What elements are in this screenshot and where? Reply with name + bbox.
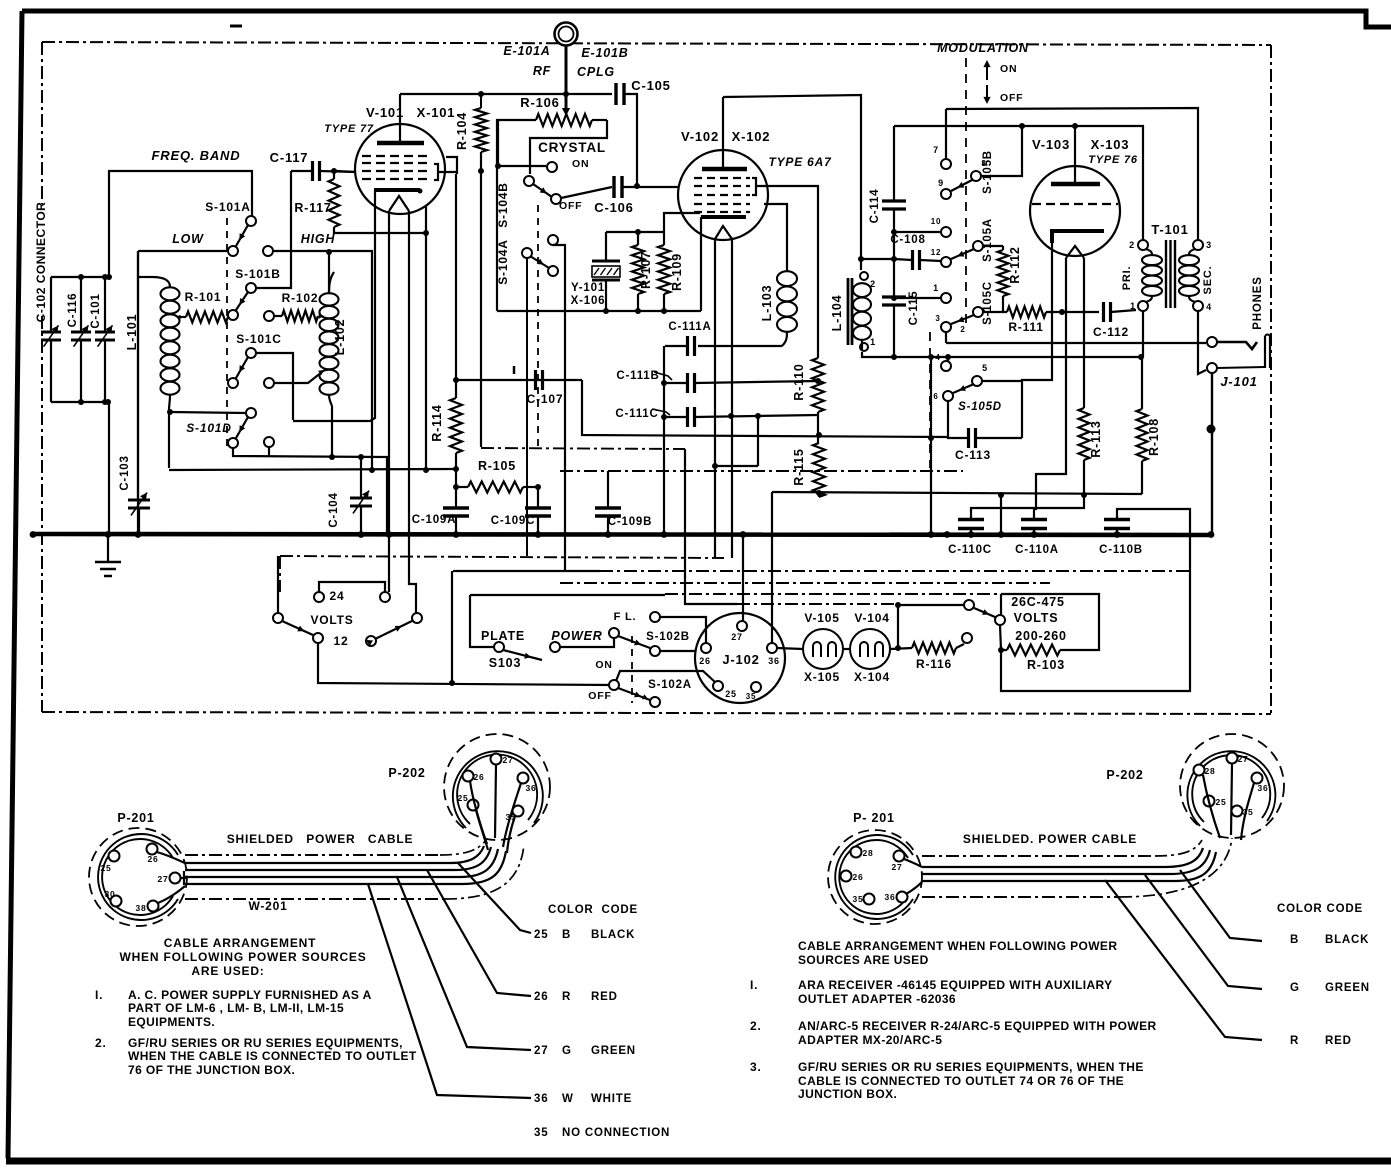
resistor R-104 — [480, 94, 482, 108]
wire contact5 — [982, 380, 1022, 382]
svg-text:9: 9 — [938, 178, 944, 188]
svg-text:R-106: R-106 — [520, 95, 559, 110]
svg-text:TYPE 76: TYPE 76 — [1088, 154, 1138, 166]
svg-text:28: 28 — [862, 848, 873, 858]
svg-text:COLOR CODE: COLOR CODE — [548, 904, 638, 916]
V-103 cathode lead down — [1022, 243, 1052, 438]
svg-text:CABLE IS CONNECTED TO OUTLET: CABLE IS CONNECTED TO OUTLET 74 OR 76 OF… — [798, 1074, 1124, 1088]
svg-text:26: 26 — [473, 772, 484, 782]
svg-text:CABLE ARRANGEMENT WHEN FOLLOWI: CABLE ARRANGEMENT WHEN FOLLOWING POWER — [798, 939, 1117, 953]
svg-text:12: 12 — [334, 634, 349, 648]
capacitor C-106 — [612, 176, 615, 198]
svg-text:HIGH: HIGH — [301, 232, 336, 246]
wire C-111 left bus — [663, 346, 665, 535]
lamp V-105 — [803, 629, 843, 669]
svg-text:L-103: L-103 — [760, 285, 774, 322]
wire V-102 plate top to L-104 — [723, 95, 861, 270]
svg-text:SOURCES ARE USED: SOURCES ARE USED — [798, 953, 929, 967]
svg-text:ARE USED:: ARE USED: — [191, 964, 264, 978]
svg-text:R: R — [1290, 1035, 1299, 1047]
svg-text:J-101: J-101 — [1220, 374, 1257, 389]
svg-text:C-102 CONNECTOR: C-102 CONNECTOR — [34, 202, 48, 323]
dash-dot power rail 1 — [280, 556, 724, 558]
svg-text:R-102: R-102 — [282, 291, 319, 305]
svg-text:1: 1 — [870, 337, 876, 347]
svg-text:R-105: R-105 — [478, 459, 516, 473]
svg-text:I.: I. — [95, 988, 103, 1002]
tube V-101 envelope — [355, 124, 445, 214]
svg-text:36: 36 — [525, 783, 536, 793]
switch S-104A — [548, 235, 558, 245]
fanout line to B right — [1180, 870, 1262, 941]
svg-text:GF/RU SERIES OR RU SERIES EQU: GF/RU SERIES OR RU SERIES EQUIPMENTS, WH… — [798, 1060, 1144, 1074]
linkage dashed S-104 axis — [537, 205, 539, 448]
svg-text:ON: ON — [595, 659, 612, 671]
ground symbol — [107, 535, 109, 561]
dashed switch axis S-101 — [226, 218, 228, 448]
svg-text:4: 4 — [1206, 302, 1212, 312]
V-103 cathode — [1052, 231, 1104, 243]
svg-text:R-113: R-113 — [1089, 420, 1103, 457]
svg-text:G: G — [1290, 982, 1300, 994]
svg-text:C-108: C-108 — [890, 234, 925, 246]
svg-text:C-101: C-101 — [90, 293, 102, 328]
svg-text:W: W — [562, 1093, 574, 1105]
resistor R-107 — [637, 232, 639, 245]
svg-text:J-102: J-102 — [722, 652, 759, 667]
svg-text:3: 3 — [935, 314, 940, 323]
V-101 suppressor lead — [425, 206, 427, 233]
V-101 plate — [377, 141, 424, 146]
svg-text:P-202: P-202 — [388, 766, 425, 780]
svg-text:L-102: L-102 — [333, 319, 347, 356]
svg-text:R-107: R-107 — [639, 251, 653, 289]
svg-text:25: 25 — [1215, 797, 1226, 807]
svg-text:26: 26 — [852, 872, 863, 882]
svg-text:CPLG: CPLG — [577, 65, 615, 79]
contact C and HIGH wire — [263, 246, 273, 256]
wire lamps — [843, 648, 850, 650]
svg-text:VOLTS: VOLTS — [310, 613, 353, 627]
svg-text:28: 28 — [1204, 766, 1215, 776]
svg-text:R-109: R-109 — [670, 253, 684, 291]
wires P-201 right pins — [904, 859, 922, 867]
svg-text:C-115: C-115 — [908, 291, 920, 326]
svg-text:26: 26 — [699, 656, 711, 666]
dash-dot power rail 2 — [453, 570, 600, 572]
svg-text:X-106: X-106 — [571, 295, 606, 307]
V-103 plate — [1051, 182, 1100, 187]
wire pin27 up — [742, 536, 744, 622]
wires P-202 right pins — [1231, 764, 1232, 835]
svg-text:24: 24 — [330, 589, 345, 603]
wire R-116 junction up — [897, 605, 899, 648]
dash-dot power rail 3 — [560, 582, 1050, 584]
svg-text:V-101: V-101 — [366, 105, 404, 120]
svg-text:C-110A: C-110A — [1015, 544, 1059, 556]
svg-text:OFF: OFF — [559, 200, 582, 212]
chassis dash-dot border right — [1270, 45, 1272, 714]
wires P-202 pins to cable — [495, 765, 496, 838]
svg-text:25: 25 — [534, 929, 548, 941]
svg-text:2: 2 — [960, 325, 965, 334]
wire cap block top — [51, 276, 109, 278]
V-102 heater — [715, 226, 732, 239]
wire top rail y108 — [946, 108, 1198, 240]
wire S-104B to C-106 — [561, 187, 612, 198]
svg-text:12: 12 — [931, 248, 942, 257]
dash-dot power rail 4 — [470, 594, 665, 596]
svg-text:30: 30 — [104, 889, 115, 899]
switch S-104B — [524, 176, 534, 186]
svg-text:26: 26 — [534, 991, 548, 1003]
svg-text:36: 36 — [1257, 783, 1268, 793]
svg-text:V-104: V-104 — [854, 611, 889, 625]
svg-text:S-105D: S-105D — [958, 401, 1002, 413]
svg-text:Y-101: Y-101 — [571, 282, 605, 294]
svg-text:7: 7 — [933, 145, 939, 155]
wire cap block bottom — [51, 401, 109, 403]
capacitor C-105 — [614, 83, 617, 105]
svg-text:R-116: R-116 — [916, 657, 952, 671]
svg-text:COLOR CODE: COLOR CODE — [1277, 903, 1363, 915]
modulation OFF arrow — [986, 85, 988, 101]
wire R-104 column down — [480, 171, 482, 447]
svg-text:C-116: C-116 — [67, 293, 79, 328]
fanout line to RED — [427, 870, 531, 996]
svg-text:V-105: V-105 — [804, 611, 839, 625]
jack symbol — [1217, 342, 1257, 349]
svg-text:AN/ARC-5 RECEIVER R-24/ARC-5 E: AN/ARC-5 RECEIVER R-24/ARC-5 EQUIPPED WI… — [798, 1019, 1157, 1033]
svg-text:76 OF THE JUNCTION BOX.: 76 OF THE JUNCTION BOX. — [128, 1063, 295, 1077]
svg-text:ON: ON — [572, 158, 589, 170]
svg-text:GF/RU SERIES OR RU SERIES EQUI: GF/RU SERIES OR RU SERIES EQUIPMENTS, — [128, 1036, 403, 1050]
svg-text:RED: RED — [591, 991, 618, 1003]
fanout line to WHITE — [368, 884, 531, 1098]
wire C-107 node — [456, 379, 582, 381]
svg-text:35: 35 — [534, 1127, 548, 1139]
svg-text:TYPE 6A7: TYPE 6A7 — [768, 155, 832, 169]
svg-text:R-115: R-115 — [792, 448, 806, 485]
svg-text:VOLTS: VOLTS — [1014, 611, 1059, 625]
svg-text:TYPE 77: TYPE 77 — [324, 123, 374, 135]
svg-text:V-103: V-103 — [1032, 137, 1070, 152]
wire rail y126 — [894, 125, 1141, 127]
coil L-103 — [777, 271, 797, 286]
svg-text:25: 25 — [725, 689, 737, 699]
svg-text:4: 4 — [935, 353, 940, 362]
wire T-101 pin4 to jack sleeve — [1198, 311, 1206, 374]
svg-text:GREEN: GREEN — [591, 1045, 636, 1057]
tube V-103 envelope — [1030, 166, 1120, 256]
V-103 heater — [1066, 246, 1084, 258]
fanout line to BLACK — [458, 863, 531, 933]
svg-text:P-202: P-202 — [1106, 768, 1143, 782]
svg-text:27: 27 — [534, 1045, 548, 1057]
svg-text:S103: S103 — [489, 656, 521, 670]
chassis dash-dot border top — [42, 42, 1271, 45]
wire C-110B top to power box — [1001, 509, 1190, 691]
dash-dot power rail 5 — [737, 603, 894, 605]
wire C-107 right down to AVC rail — [582, 380, 948, 437]
svg-text:27: 27 — [731, 632, 743, 642]
svg-text:WHEN THE CABLE IS CONNECTED TO: WHEN THE CABLE IS CONNECTED TO OUTLET — [128, 1049, 417, 1063]
V-103 heater leads down — [1034, 258, 1066, 518]
svg-text:R-117: R-117 — [294, 201, 331, 215]
svg-text:10: 10 — [931, 217, 942, 226]
svg-text:R-104: R-104 — [455, 112, 469, 150]
capacitor C-102 variable — [50, 277, 52, 331]
wire pin25 — [616, 671, 715, 682]
tube V-102 envelope — [678, 150, 768, 240]
svg-text:2.: 2. — [750, 1019, 762, 1033]
wire S-105D common down — [947, 401, 949, 433]
svg-text:PHONES: PHONES — [1252, 276, 1264, 329]
svg-text:R-114: R-114 — [430, 404, 444, 441]
svg-text:S-105C: S-105C — [982, 281, 994, 325]
V-101 control grid lead to C-117 — [336, 171, 356, 172]
switch 26C-475 — [898, 604, 964, 606]
wire T-101 pin1 down — [1142, 311, 1144, 357]
wire C-105 to V-102 grid branch — [624, 94, 637, 186]
svg-text:36: 36 — [884, 892, 895, 902]
wire C-106 to V-102 grid — [622, 186, 679, 188]
connector J-102 — [695, 613, 785, 703]
svg-text:WHEN FOLLOWING POWER SOURCES: WHEN FOLLOWING POWER SOURCES — [119, 950, 366, 964]
coil L-102 — [320, 293, 339, 305]
dash-dot linkage y470 — [560, 470, 963, 472]
svg-text:X-104: X-104 — [854, 670, 890, 684]
svg-text:E-101A: E-101A — [503, 44, 550, 58]
svg-text:POWER: POWER — [551, 629, 602, 643]
svg-text:JUNCTION BOX.: JUNCTION BOX. — [798, 1087, 897, 1101]
svg-text:L-104: L-104 — [830, 295, 844, 332]
svg-text:OUTLET ADAPTER -62036: OUTLET ADAPTER -62036 — [798, 992, 956, 1006]
contact F.L. — [650, 612, 660, 622]
switch S-104B crystal ON contact — [547, 162, 557, 172]
wire AVC to J-102 pin 36 — [771, 492, 773, 643]
V-101 grids — [362, 155, 432, 157]
svg-text:2.: 2. — [95, 1036, 107, 1050]
wire crystal box left — [497, 120, 498, 311]
lamp V-104 — [850, 629, 890, 669]
svg-text:BLACK: BLACK — [1325, 934, 1369, 946]
svg-text:E-101B: E-101B — [581, 46, 628, 60]
svg-text:X-103: X-103 — [1091, 137, 1130, 152]
wire crystal bottom rail — [497, 310, 701, 312]
wire 200-260 box — [1001, 594, 1099, 650]
wire 12V down to S-102 row — [318, 643, 612, 685]
svg-text:26C-475: 26C-475 — [1011, 595, 1065, 609]
svg-text:ADAPTER MX-20/ARC-5: ADAPTER MX-20/ARC-5 — [798, 1033, 942, 1047]
svg-text:OFF: OFF — [1000, 92, 1023, 104]
svg-text:C-110B: C-110B — [1099, 544, 1143, 556]
svg-text:S-101C: S-101C — [236, 332, 282, 346]
svg-text:S-102A: S-102A — [648, 679, 692, 691]
wire S-105B throw to rail — [981, 126, 1022, 176]
svg-text:SHIELDED POWER CABLE: SHIELDED POWER CABLE — [227, 832, 414, 846]
svg-text:3.: 3. — [750, 1060, 762, 1074]
fanout line to G right — [1145, 875, 1262, 989]
dashed axis S-105D jog — [929, 332, 931, 468]
cable right diagram — [922, 855, 1155, 857]
wire y357 rail — [894, 356, 1141, 358]
svg-text:A. C. POWER SUPPLY FURNISHED A: A. C. POWER SUPPLY FURNISHED AS A — [128, 988, 372, 1002]
svg-text:BLACK: BLACK — [591, 929, 635, 941]
svg-text:X-105: X-105 — [804, 670, 840, 684]
svg-text:S-101D: S-101D — [186, 421, 232, 435]
wire S-101D common down — [233, 448, 387, 533]
wire R-117 bottom down — [425, 233, 427, 470]
fanout line to R right — [1105, 880, 1262, 1040]
fanout line to GREEN — [397, 877, 531, 1050]
V-102 third grid to L-103 — [764, 204, 787, 271]
resistor R-109 — [663, 232, 665, 245]
svg-text:P- 201: P- 201 — [853, 811, 895, 825]
svg-text:C-113: C-113 — [955, 448, 991, 462]
V-101 heater — [389, 196, 409, 211]
svg-text:X-101: X-101 — [417, 105, 456, 120]
wire pin36 to lamps — [777, 648, 803, 649]
wires P-201 pins to cable — [157, 852, 185, 863]
svg-text:C-109B: C-109B — [608, 516, 652, 528]
svg-text:C-111B: C-111B — [616, 370, 659, 382]
linkage dash-dot y448 — [481, 448, 685, 449]
svg-text:6: 6 — [933, 392, 938, 401]
wire AVC rail — [772, 492, 1142, 494]
page outer border frame — [22, 11, 1391, 27]
svg-text:1: 1 — [1130, 301, 1136, 311]
svg-text:SEC.: SEC. — [1202, 266, 1214, 295]
svg-text:3: 3 — [1206, 240, 1212, 250]
svg-text:C-111A: C-111A — [668, 321, 711, 333]
wire S-101D row — [170, 412, 246, 413]
svg-text:S-105A: S-105A — [982, 218, 994, 262]
ground bus — [33, 534, 1211, 535]
svg-text:WHITE: WHITE — [591, 1093, 632, 1105]
coil L-101 — [152, 277, 170, 287]
svg-text:R-111: R-111 — [1008, 320, 1043, 334]
svg-text:R-103: R-103 — [1027, 658, 1065, 672]
svg-text:36: 36 — [768, 656, 780, 666]
svg-text:26: 26 — [147, 854, 158, 864]
wire freq band bus — [109, 171, 252, 277]
contact S-101C throw — [264, 378, 274, 388]
resistor R-103 — [1000, 625, 1001, 650]
svg-text:CABLE ARRANGEMENT: CABLE ARRANGEMENT — [164, 936, 317, 950]
svg-text:FREQ. BAND: FREQ. BAND — [152, 148, 241, 163]
svg-text:R-112: R-112 — [1008, 246, 1022, 283]
svg-text:B: B — [1290, 934, 1299, 946]
svg-text:5: 5 — [982, 363, 988, 373]
svg-text:GREEN: GREEN — [1325, 982, 1370, 994]
svg-text:25: 25 — [457, 793, 468, 803]
svg-text:S-105B: S-105B — [982, 150, 994, 194]
wire S-105A throw to R-112 — [983, 245, 1003, 247]
wire S-104A pivot down — [526, 258, 528, 556]
svg-text:C-114: C-114 — [869, 189, 881, 224]
modulation dashed axis — [965, 58, 967, 330]
svg-text:8: 8 — [981, 159, 986, 168]
wire antenna lead-in — [565, 46, 568, 110]
svg-text:C-107: C-107 — [527, 392, 564, 406]
svg-text:200-260: 200-260 — [1015, 629, 1066, 643]
V-102 plate — [702, 167, 747, 172]
wire L-103 bottom to C-111A — [782, 332, 787, 346]
V-101 cathode — [374, 188, 420, 192]
svg-text:T-101: T-101 — [1151, 222, 1188, 237]
svg-text:2: 2 — [870, 279, 876, 289]
svg-text:S-101A: S-101A — [205, 200, 251, 214]
svg-text:C-110C: C-110C — [948, 544, 992, 556]
svg-text:C-112: C-112 — [1093, 325, 1129, 339]
svg-text:C-117: C-117 — [270, 150, 309, 165]
svg-text:27: 27 — [891, 862, 902, 872]
cable left diagram — [185, 854, 440, 856]
wire PLATE contact up — [470, 595, 494, 647]
svg-text:S-102B: S-102B — [646, 631, 690, 643]
dashed axis S-102 — [631, 636, 633, 703]
svg-text:V-102: V-102 — [681, 129, 719, 144]
wire R-109 top to V-102 cathode rail — [664, 213, 700, 232]
svg-text:27: 27 — [157, 874, 168, 884]
svg-text:R: R — [562, 991, 571, 1003]
svg-text:R-110: R-110 — [792, 363, 806, 400]
wire C-101 column to ground bus — [108, 402, 110, 533]
svg-text:G: G — [562, 1045, 572, 1057]
svg-text:X-102: X-102 — [732, 129, 771, 144]
svg-text:CRYSTAL: CRYSTAL — [538, 140, 606, 155]
svg-text:F L.: F L. — [614, 611, 637, 623]
svg-text:SHIELDED. POWER CABLE: SHIELDED. POWER CABLE — [963, 832, 1137, 846]
svg-text:I.: I. — [750, 978, 758, 992]
wire plate V-101 to C-105 — [400, 93, 612, 95]
svg-text:PRI.: PRI. — [1121, 266, 1133, 291]
V-101 screen lead down — [456, 172, 458, 174]
V-102 cathode — [701, 215, 746, 219]
svg-text:NO CONNECTION: NO CONNECTION — [562, 1127, 670, 1139]
svg-text:38: 38 — [135, 903, 146, 913]
chassis dash-dot border bottom — [42, 712, 1271, 714]
wire to J-102 pin area — [685, 449, 737, 604]
svg-text:27: 27 — [1237, 754, 1248, 764]
svg-text:2: 2 — [1129, 240, 1135, 250]
wire box x452 — [451, 571, 453, 683]
wire phones tip — [946, 342, 1206, 344]
svg-text:C-104: C-104 — [328, 492, 340, 527]
svg-text:PLATE: PLATE — [481, 629, 525, 643]
svg-text:ON: ON — [1000, 63, 1017, 75]
wire x931 to bus — [930, 357, 932, 535]
junction C-111C to R-115 branch — [755, 413, 761, 419]
svg-text:35: 35 — [746, 692, 757, 701]
svg-text:25: 25 — [100, 863, 111, 873]
svg-text:OFF: OFF — [588, 690, 611, 702]
svg-text:R-101: R-101 — [185, 290, 222, 304]
wire R-106 left loop to crystal ON contact — [497, 120, 499, 166]
svg-text:1: 1 — [933, 283, 939, 293]
wire J-101 down to bus — [1211, 373, 1213, 535]
chassis dash-dot border left — [41, 42, 43, 204]
svg-text:ARA RECEIVER -46145 EQUIPPE: ARA RECEIVER -46145 EQUIPPED WITH AUXILI… — [798, 978, 1113, 992]
svg-text:C-106: C-106 — [594, 200, 633, 215]
crystal Y-101 X-106 — [592, 260, 620, 263]
svg-text:35: 35 — [852, 894, 863, 904]
wire LOW — [138, 250, 228, 252]
wire horizontal y470 — [169, 469, 456, 470]
svg-text:27: 27 — [502, 755, 513, 765]
V-103 grid — [1032, 203, 1118, 205]
